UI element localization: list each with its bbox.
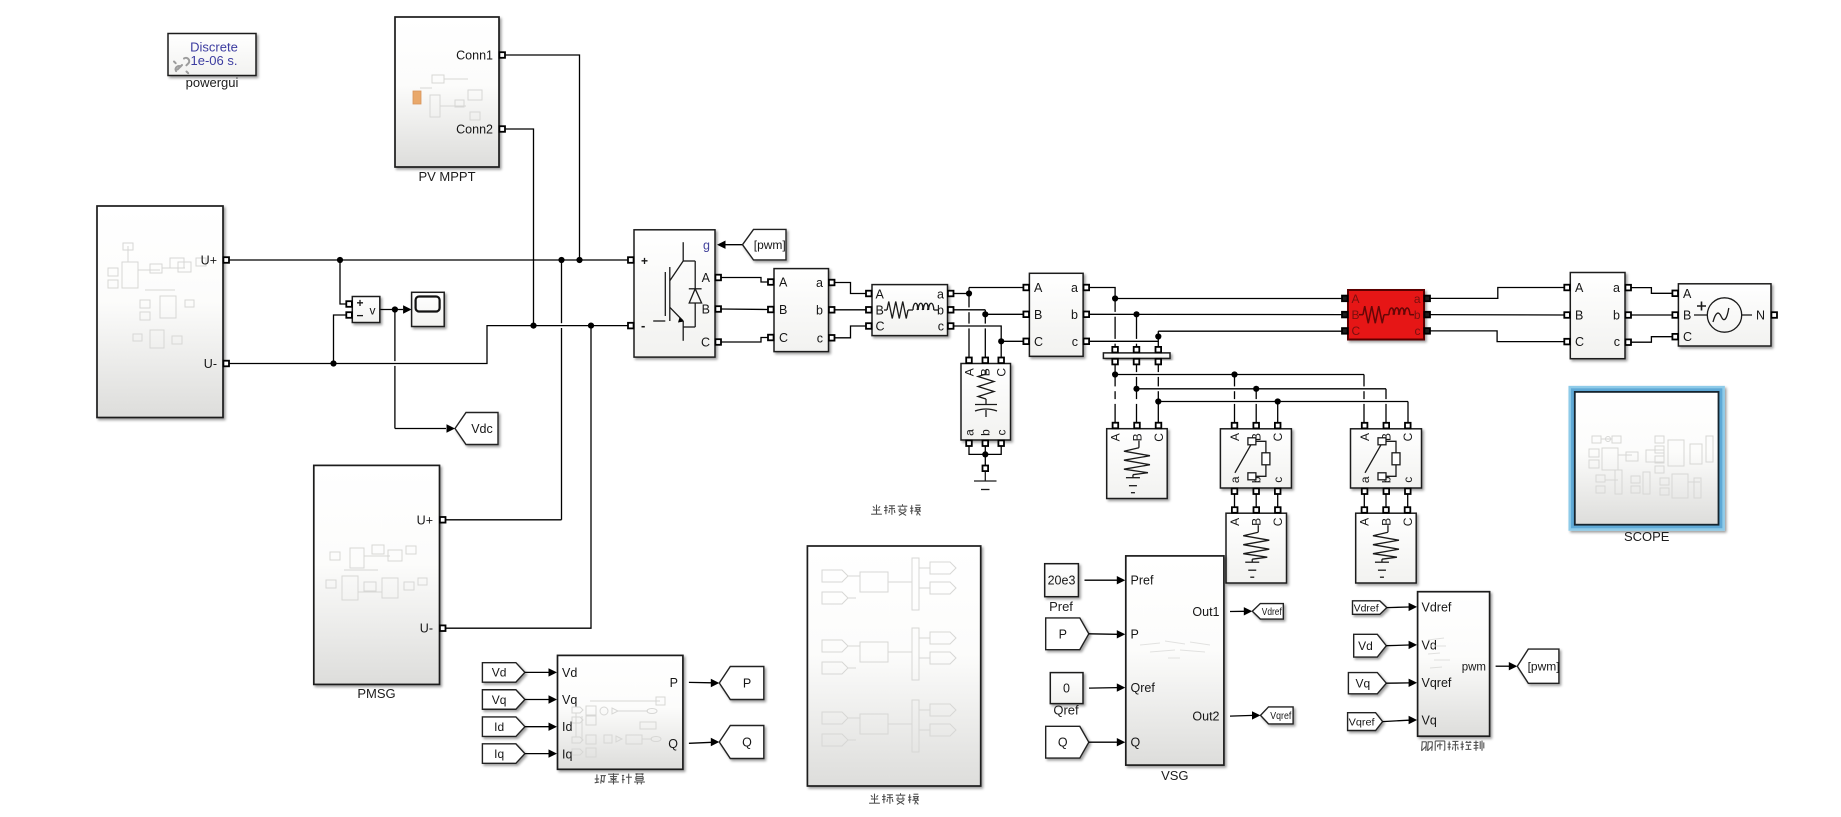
goto tag P <box>719 667 764 700</box>
wire U- bus tap up to voltmeter - input <box>334 315 347 364</box>
junction load tap A <box>1112 371 1118 377</box>
wire voltmeter output down to Vdc goto tag (hops over U- bus) <box>394 310 396 362</box>
wire VSG Out1 to goto Vdref <box>1230 610 1245 612</box>
label power-calculation <box>595 773 645 784</box>
from tag P <box>1046 618 1089 650</box>
constant block 20e3 <box>1045 564 1079 597</box>
junction phase A feeder <box>1112 295 1118 301</box>
wire U+ bus tap down to voltmeter + input <box>340 260 346 304</box>
svg-text:B: B <box>1250 518 1264 526</box>
svg-text:c: c <box>1415 324 1421 338</box>
wire RL b to measurement2 B and capacitor bank B <box>954 309 986 311</box>
svg-text:A: A <box>702 271 711 285</box>
wire measurement1 c to RL filter C <box>835 326 866 338</box>
svg-text:c: c <box>995 430 1009 436</box>
svg-text:Vq: Vq <box>562 693 577 707</box>
from tag [pwm] feeding gate <box>743 229 787 260</box>
block three-phase V-I measurement 3 <box>1564 273 1631 359</box>
wire measurement2 c to grid phase C <box>1089 340 1158 342</box>
svg-text:C: C <box>1271 432 1285 441</box>
wire feeder phase C to breakers <box>1158 401 1408 403</box>
svg-text:c: c <box>1271 477 1285 483</box>
svg-text:c: c <box>817 331 823 345</box>
svg-text:c: c <box>1072 335 1078 349</box>
svg-text:v: v <box>370 304 376 318</box>
wire feeder phase B to breakers <box>1137 388 1387 390</box>
block coordinate transform subsystem <box>807 546 980 786</box>
wire measurement3 a to source A <box>1631 288 1672 294</box>
wire Vd to power-calc <box>525 671 549 673</box>
junction load tap C <box>1155 398 1161 404</box>
wire Vdref to control <box>1387 606 1409 609</box>
svg-text:Vdref: Vdref <box>1354 602 1379 614</box>
from tag Vq <box>482 690 525 710</box>
svg-text:Conn2: Conn2 <box>456 123 493 137</box>
svg-text:A: A <box>1575 281 1584 295</box>
port Conn2 of PV MPPT <box>456 123 505 137</box>
label dual closed-loop control <box>1422 741 1484 751</box>
svg-text:b: b <box>1414 308 1421 322</box>
goto tag [pwm] <box>1517 649 1559 683</box>
svg-text:PMSG: PMSG <box>357 686 395 701</box>
junction U+ tap <box>337 257 343 263</box>
svg-text:C: C <box>1152 433 1166 442</box>
svg-text:a: a <box>1228 476 1242 483</box>
wire feeder phase A to breakers <box>1115 374 1364 376</box>
svg-text:a: a <box>962 429 976 436</box>
ghost contents of coordinate transform subsystem <box>822 558 956 752</box>
svg-text:C: C <box>701 336 710 350</box>
wire VSG Out2 to goto Vqref <box>1230 714 1253 717</box>
wire bus bar phase A down to local load / taps <box>1114 364 1116 386</box>
block three-phase breaker 1 <box>1220 423 1291 494</box>
port U+ of left subsystem <box>201 254 229 268</box>
goto tag Q <box>719 726 764 759</box>
wire bus bar phase B down <box>1136 364 1138 372</box>
series RC icon inside capacitor bank <box>975 370 997 417</box>
svg-text:B: B <box>1379 518 1393 526</box>
resistor-inductor icon in red branch <box>1359 306 1414 323</box>
svg-text:-: - <box>641 318 645 333</box>
voltmeter block Vdc measurement (+ - v) <box>346 296 380 323</box>
block three-phase V-I measurement 2 <box>1023 273 1089 356</box>
from tag Id <box>482 717 525 737</box>
wire Q to VSG <box>1089 741 1117 743</box>
svg-text:a: a <box>816 276 823 290</box>
wire Iq to power-calc <box>525 753 549 755</box>
ghost contents of SCOPE <box>1589 436 1713 498</box>
junction Conn1/U+ bus <box>576 257 582 263</box>
port U- of PMSG <box>420 622 446 636</box>
wires breaker2 to RL load 3 <box>1363 494 1365 507</box>
ghost contents of left subsystem <box>108 243 206 348</box>
svg-text:VSG: VSG <box>1161 768 1188 783</box>
svg-text:b: b <box>1613 309 1620 323</box>
arrow into scope <box>403 305 412 313</box>
svg-text:powergui: powergui <box>186 75 239 90</box>
svg-text:C: C <box>1271 517 1285 526</box>
wire RL a to measurement2 A and capacitor bank A <box>954 293 970 295</box>
svg-text:c: c <box>938 320 944 334</box>
port U- of left subsystem <box>204 357 229 371</box>
junction phase B feeder <box>1133 311 1139 317</box>
port - of inverter <box>628 318 645 333</box>
wire U- bus from left block U- <box>229 326 628 364</box>
svg-text:B: B <box>1130 433 1144 441</box>
svg-text:Conn1: Conn1 <box>456 49 493 63</box>
svg-text:a: a <box>1414 292 1421 306</box>
svg-text:P: P <box>1059 627 1067 641</box>
port B of inverter <box>702 303 721 317</box>
IGBT with anti-parallel diode icon <box>653 242 701 341</box>
from tag Q <box>1046 726 1089 758</box>
wire inverter C to measurement1 C <box>721 338 768 343</box>
svg-text:B: B <box>1683 309 1691 323</box>
wire P to VSG <box>1089 633 1117 636</box>
svg-text:Out2: Out2 <box>1192 710 1219 724</box>
junction breaker1 tap B <box>1253 386 1259 392</box>
port Conn1 of PV MPPT <box>456 49 505 63</box>
wire RL c to measurement2 C and capacitor bank C <box>954 326 1002 360</box>
from tag Vd <box>482 663 525 683</box>
wire 0 to VSG Qref <box>1089 687 1117 690</box>
svg-text:a: a <box>1613 281 1620 295</box>
block PV source subsystem (left, unlabeled) <box>97 206 223 418</box>
svg-text:+: + <box>641 254 648 268</box>
junction breaker1 tap A <box>1231 371 1237 377</box>
wire Conn2 of PV MPPT down to U- bus <box>506 129 534 326</box>
svg-text:C: C <box>779 331 788 345</box>
svg-text:B: B <box>1034 308 1042 322</box>
svg-text:a: a <box>1071 281 1078 295</box>
wire bus bar phase C down <box>1157 364 1159 372</box>
wire breaker1 phase B drop <box>1255 389 1257 399</box>
junction at phase B tap <box>982 311 988 317</box>
wire voltmeter output to scope <box>381 309 404 311</box>
svg-text:U-: U- <box>420 622 433 636</box>
svg-text:Id: Id <box>562 720 572 734</box>
block SCOPE subsystem (selected with blue frame) <box>1570 387 1724 529</box>
svg-text:Q: Q <box>1058 736 1068 750</box>
svg-text:a: a <box>1358 476 1372 483</box>
block three-phase RL load 1 (grounded) <box>1107 423 1168 499</box>
AC source icon (+, sine circle) <box>1694 298 1752 332</box>
ground symbol <box>974 472 997 490</box>
svg-text:b: b <box>979 429 993 436</box>
svg-text:A: A <box>962 368 976 376</box>
svg-text:A: A <box>1352 292 1360 306</box>
block three-phase V-I measurement 1 <box>768 269 835 352</box>
svg-text:Vq: Vq <box>492 693 507 707</box>
port C of inverter <box>701 336 721 350</box>
port U+ of PMSG <box>417 513 446 527</box>
svg-text:Vqref: Vqref <box>1270 710 1291 722</box>
svg-text:[pwm]: [pwm] <box>1528 660 1560 674</box>
scope block (DC voltage scope) <box>412 292 445 326</box>
block universal bridge inverter (IGBT/diode) <box>482 229 1777 804</box>
svg-text:Vd: Vd <box>1422 638 1437 652</box>
junction Conn2/U- bus <box>530 323 536 329</box>
goto tag Vqref <box>1261 707 1294 724</box>
wire red branch c to measurement3 C <box>1430 331 1564 342</box>
block PV MPPT subsystem <box>395 17 499 167</box>
wire red branch a to measurement3 A <box>1430 288 1564 299</box>
svg-text:U+: U+ <box>417 513 433 527</box>
wire P output to goto tag P <box>689 681 712 683</box>
wire measurement1 b to RL filter B <box>835 309 866 311</box>
block three-phase RL load 2 <box>1226 507 1287 583</box>
junction breaker1 tap C <box>1275 398 1281 404</box>
svg-text:U+: U+ <box>201 254 217 268</box>
port A of inverter <box>702 271 721 285</box>
svg-text:20e3: 20e3 <box>1048 574 1076 588</box>
wire Vq to control <box>1386 682 1409 684</box>
svg-text:B: B <box>1352 308 1360 322</box>
svg-text:C: C <box>1401 517 1415 526</box>
svg-text:U-: U- <box>204 357 217 371</box>
svg-text:a: a <box>937 288 944 302</box>
svg-text:Vdref: Vdref <box>1422 600 1452 614</box>
svg-text:B: B <box>1575 309 1583 323</box>
svg-text:A: A <box>1109 433 1123 441</box>
svg-text:C: C <box>1401 432 1415 441</box>
junction voltmeter output <box>392 306 398 312</box>
wire from [pwm] from-tag to inverter gate <box>725 244 743 246</box>
wire measurement1 a to RL filter A <box>835 283 866 294</box>
svg-text:C: C <box>1575 335 1584 349</box>
wire capacitor bank neutral join to ground <box>969 446 985 454</box>
wire PMSG U+ riser to U+ bus (hops over U- feed) <box>446 519 562 521</box>
svg-text:P: P <box>1131 628 1139 642</box>
svg-text:Qref: Qref <box>1131 681 1156 695</box>
block dual closed-loop control subsystem <box>1418 592 1490 737</box>
svg-text:B: B <box>702 303 710 317</box>
svg-text:A: A <box>1228 433 1242 441</box>
junction neutral <box>982 451 988 457</box>
wires breaker1 to RL load 2 <box>1234 494 1236 507</box>
ghost orange converter block inside PV MPPT <box>413 91 421 104</box>
wire PMSG U- riser to U- bus <box>446 326 591 629</box>
wire red branch b to measurement3 B <box>1430 314 1564 316</box>
svg-text:pwm: pwm <box>1462 661 1486 673</box>
from tag Vd <box>1354 634 1387 657</box>
svg-text:Q: Q <box>668 737 678 751</box>
arrow into Vdc goto tag <box>447 424 456 432</box>
arrow into gate port <box>717 241 726 249</box>
from tag Vqref <box>1348 713 1383 731</box>
wire measurement2 a to grid phase A <box>1089 288 1115 299</box>
wire measurement2 b to grid phase B <box>1089 313 1342 315</box>
svg-text:Vdc: Vdc <box>471 422 493 436</box>
svg-text:c: c <box>1401 477 1415 483</box>
svg-text:SCOPE: SCOPE <box>1624 529 1670 544</box>
svg-text:C: C <box>1352 324 1361 338</box>
wire Vq to power-calc <box>525 699 549 701</box>
svg-text:c: c <box>1614 335 1620 349</box>
svg-text:P: P <box>670 676 678 690</box>
wire breaker1 phase C drop <box>1277 402 1279 426</box>
wire Id to power-calc <box>525 726 549 728</box>
wire inverter B to measurement1 B <box>721 308 768 311</box>
junction load tap B <box>1133 386 1139 392</box>
ghost contents of PV MPPT <box>420 75 482 120</box>
ghost contents of VSG <box>1140 641 1210 658</box>
label coordinate-transform (lower) <box>869 793 919 804</box>
svg-text:Out1: Out1 <box>1192 605 1219 619</box>
junction PMSG U-/U- feed <box>588 323 594 329</box>
wire measurement3 c to source C <box>1631 337 1672 343</box>
goto tag Vdc <box>455 413 498 445</box>
svg-text:Vq: Vq <box>1356 677 1371 691</box>
from tag Iq <box>482 744 525 764</box>
svg-text:Pref: Pref <box>1131 574 1154 588</box>
svg-text:Iq: Iq <box>494 747 504 761</box>
junction U- tap <box>330 360 336 366</box>
svg-text:Vqref: Vqref <box>1349 716 1375 728</box>
svg-text:Vdref: Vdref <box>1262 606 1282 618</box>
from tag Vq <box>1348 673 1386 694</box>
svg-text:C: C <box>876 320 885 334</box>
svg-text:C: C <box>1683 330 1692 344</box>
block three-phase RL load 3 <box>1356 507 1417 583</box>
wire inverter A to measurement1 A <box>721 278 768 283</box>
svg-text:A: A <box>1358 518 1372 526</box>
svg-text:Vd: Vd <box>562 666 577 680</box>
svg-text:−: − <box>357 309 364 323</box>
wire pwm output to goto [pwm] <box>1496 665 1510 667</box>
block three-phase series RL filter branch <box>866 285 954 336</box>
wire Vd to control <box>1386 644 1409 647</box>
wire U+ DC bus (left block U+ to inverter +) <box>229 259 628 261</box>
goto tag Vdref <box>1252 604 1283 620</box>
block PMSG subsystem <box>314 465 440 684</box>
svg-text:Q: Q <box>1131 736 1141 750</box>
svg-text:A: A <box>876 288 885 302</box>
ground port square <box>983 466 989 472</box>
svg-text:g: g <box>703 239 710 253</box>
svg-text:Vd: Vd <box>492 666 507 680</box>
block power calculation subsystem <box>558 655 683 769</box>
resistor-inductor icon of RL filter <box>884 309 887 311</box>
ghost contents of power calculation <box>572 697 665 757</box>
svg-text:Vqref: Vqref <box>1422 676 1452 690</box>
svg-text:b: b <box>1071 308 1078 322</box>
from tag Vdref <box>1353 601 1387 615</box>
svg-text:B: B <box>779 303 787 317</box>
svg-text:Qref: Qref <box>1053 703 1079 718</box>
constant block 0 <box>1050 673 1083 704</box>
block three-phase RC filter capacitor bank (rotated) <box>961 358 1011 447</box>
wire 20e3 to VSG Pref <box>1085 579 1118 581</box>
svg-text:Vq: Vq <box>1422 713 1437 727</box>
svg-text:Pref: Pref <box>1049 599 1073 614</box>
svg-text:A: A <box>1358 433 1372 441</box>
block three-phase line RL branch (selected, red) <box>1342 290 1430 340</box>
svg-text:0: 0 <box>1063 682 1070 696</box>
bus bar block (three-phase connector) <box>1103 347 1170 365</box>
svg-text:A: A <box>1228 518 1242 526</box>
svg-text:Q: Q <box>742 736 752 750</box>
svg-text:N: N <box>1756 309 1765 323</box>
block three-phase breaker 2 <box>1351 423 1422 494</box>
wire Conn1 of PV MPPT down to U+ bus <box>506 55 580 260</box>
svg-text:b: b <box>937 304 944 318</box>
block three-phase programmable voltage source <box>1672 284 1777 346</box>
svg-text:A: A <box>1683 287 1692 301</box>
junction PMSG U+/U+ bus <box>558 257 564 263</box>
svg-text:A: A <box>779 276 788 290</box>
svg-text:P: P <box>743 677 751 691</box>
wire Vqref to control <box>1383 720 1409 721</box>
svg-text:b: b <box>816 303 823 317</box>
svg-text:Iq: Iq <box>562 748 572 762</box>
label coordinate-transform (upper) <box>871 504 921 515</box>
svg-text:[pwm]: [pwm] <box>754 238 786 252</box>
svg-text:1e-06 s.: 1e-06 s. <box>191 53 238 68</box>
wire Q output to goto tag Q <box>689 742 712 743</box>
ghost contents of PMSG <box>326 545 427 600</box>
block powergui (Discrete 1e-06 s.) <box>168 34 256 76</box>
svg-text:A: A <box>1034 281 1043 295</box>
junction at phase C tap <box>998 338 1004 344</box>
svg-text:Id: Id <box>494 720 504 734</box>
block VSG subsystem <box>1126 556 1224 765</box>
svg-text:C: C <box>1034 335 1043 349</box>
wire measurement3 b to source B <box>1631 314 1672 316</box>
wire breaker1 phase A drop <box>1234 375 1236 387</box>
svg-text:Vd: Vd <box>1358 639 1373 653</box>
junction phase C feeder <box>1155 333 1161 339</box>
svg-text:C: C <box>995 368 1009 377</box>
svg-text:B: B <box>876 304 884 318</box>
port + of inverter <box>628 254 648 268</box>
junction at phase A tap <box>966 290 972 296</box>
ghost contents of control block <box>1428 638 1450 668</box>
svg-text:PV MPPT: PV MPPT <box>418 169 475 184</box>
